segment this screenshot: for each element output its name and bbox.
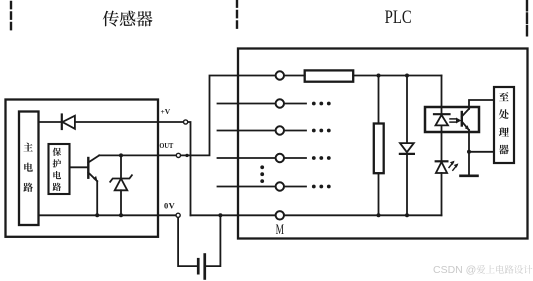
wire top rail to D2 (406, 76, 408, 144)
optocoupler U1 box (425, 107, 479, 132)
dots row 4 (312, 156, 331, 160)
svg-text:0V: 0V (164, 201, 176, 211)
junction zener / 0V (119, 213, 123, 217)
junction top rail / R2 (377, 74, 381, 78)
terminal M (common) (276, 211, 284, 219)
wire R1 to opto branch (top rail) (353, 75, 441, 77)
junction battery riser / bottom rail (218, 213, 222, 217)
wire battery + to bottom rail (206, 215, 220, 266)
LED light arrows (449, 161, 458, 171)
wire Q1 collector to OUT (99, 154, 176, 156)
junction Q1 emitter / 0V (95, 213, 99, 217)
junction emitter / processor branch (467, 150, 471, 154)
optocoupler LED (434, 114, 450, 161)
wire M rail (285, 214, 442, 216)
junction collector / zener (119, 153, 123, 157)
svg-text:M: M (276, 221, 284, 238)
terminal 0V (176, 213, 180, 217)
wire +V terminal down to bottom rail (188, 122, 191, 215)
dots row 5 (312, 185, 331, 189)
vertical ellipsis (more channels) (260, 165, 264, 183)
dashed boundary line (between sensor and PLC) (236, 1, 238, 33)
optocoupler light arrow (450, 118, 461, 124)
wire R2 to M rail (378, 173, 380, 215)
transistor Q1 base wire from protection circuit (70, 166, 89, 168)
main-circuit block 主电路 (19, 112, 39, 226)
wire terminal1 to series resistor (285, 75, 305, 77)
junction dot on OUT wire (185, 154, 188, 157)
wire emitter junction to processor box (469, 151, 494, 153)
wire D2 to M rail (406, 154, 408, 215)
wire 0V line inside sensor (39, 214, 176, 216)
label 传感器 (sensor) (103, 11, 153, 27)
optocoupler phototransistor (462, 109, 470, 131)
battery B1 (197, 253, 206, 280)
wire top rail down to optocoupler LED (441, 76, 443, 115)
indicator LED D3 (436, 161, 448, 215)
diode D1 (reverse polarity protection) (62, 115, 75, 130)
zener diode Z1 (110, 155, 132, 215)
wire from D1 to +V terminal (75, 121, 183, 123)
wire +V line inside sensor (39, 121, 62, 123)
svg-text:CSDN @: CSDN @ (433, 264, 476, 276)
wire bottom rail to M terminal (191, 214, 276, 216)
wire 0V terminal down to battery (178, 218, 197, 266)
junction top rail / D2 (405, 74, 409, 78)
processor interface box 至处理器 (494, 87, 514, 163)
transistor Q1 (NPN) (88, 155, 99, 181)
resistor R1 (series input) (305, 70, 354, 81)
wire Q1 emitter to 0V rail (96, 181, 98, 215)
terminal OUT (176, 153, 180, 157)
protection-circuit block 保护电路 (49, 144, 70, 194)
wire emitter down to ground (468, 130, 470, 176)
svg-text:+V: +V (161, 107, 171, 116)
junction M rail / R2 (377, 213, 381, 217)
ground (461, 175, 478, 178)
PLC outer box (238, 49, 528, 239)
watermark CSDN (433, 264, 532, 276)
PLC input terminal 4 (218, 154, 307, 162)
dashed boundary line (right of PLC) (526, 1, 528, 37)
terminal +V (184, 120, 188, 124)
dashed boundary line (sensor area, left) (10, 2, 12, 32)
diode D2 (clamp) (400, 143, 414, 154)
junction M rail / D2 (405, 213, 409, 217)
wire top rail to R2 (378, 76, 380, 124)
svg-text:OUT: OUT (159, 141, 173, 150)
PLC input terminal 1 (276, 71, 284, 79)
sensor outer box (6, 100, 159, 237)
svg-text:PLC: PLC (385, 6, 412, 27)
wire OUT terminal to PLC input (riser) (181, 76, 275, 156)
PLC input terminal 5 (218, 182, 307, 190)
wire collector to processor box (469, 100, 494, 109)
PLC input terminal 3 (218, 126, 307, 134)
dots row 2 (312, 102, 331, 106)
PLC input terminal 2 (218, 99, 307, 107)
resistor R2 (parallel) (374, 124, 384, 174)
dots row 3 (312, 129, 331, 133)
